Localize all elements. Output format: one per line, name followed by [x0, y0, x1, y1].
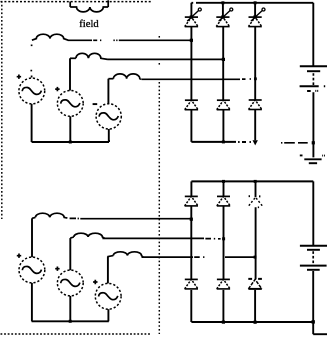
- wire phase6 to bridge: [142, 256, 256, 258]
- AC source V1: [17, 75, 45, 104]
- wire battery2 positive lead: [312, 181, 314, 245]
- node neutral lower: [69, 320, 72, 323]
- AC source V3: [93, 104, 122, 129]
- wire column1 lower: [190, 181, 192, 322]
- wire positive bus top rectifier: [191, 2, 313, 4]
- wire battery1 negative lead: [312, 92, 314, 157]
- diode D3: [249, 100, 262, 110]
- wire battery1 positive lead: [312, 3, 314, 67]
- wire phase1 top to bridge: [68, 39, 192, 41]
- wire column2 lower: [222, 181, 224, 322]
- wire negative bus fragments: [238, 141, 251, 143]
- node phase4 junction: [190, 218, 193, 221]
- wire V1 top lead (eroded dotted): [30, 45, 32, 78]
- SCR Q1: [185, 8, 202, 27]
- wire column3 lower: [254, 181, 257, 322]
- wire column3 top: [254, 3, 256, 140]
- AC source V6: [93, 280, 121, 309]
- diode D6 (eroded): [249, 196, 263, 207]
- wire coil L2 corner: [70, 57, 76, 59]
- wire V4 top lead: [31, 218, 33, 257]
- node phase5 junction: [222, 237, 225, 240]
- wire coil L4 corner: [32, 216, 35, 219]
- node phase6 junction: [254, 256, 257, 259]
- battery BT1: [300, 66, 327, 91]
- wire V2 top lead: [69, 58, 71, 90]
- diode D9 (partially eroded bar): [248, 279, 262, 289]
- node phase2 junction: [222, 58, 225, 61]
- inductor L1: [32, 34, 68, 40]
- wire V5 bottom lead: [69, 296, 71, 321]
- wire negative bus lower rectifier: [191, 321, 313, 323]
- ground: [300, 155, 325, 163]
- inductor field: [70, 7, 108, 12]
- wire battery2 negative lead: [312, 271, 314, 334]
- inductor L5: [74, 233, 105, 238]
- AC source V2: [55, 87, 83, 116]
- node battery2 negative bus: [312, 320, 315, 323]
- wire neutral bus lower alternator: [32, 320, 109, 322]
- wire column2 top: [222, 3, 225, 142]
- diode D8: [217, 279, 230, 289]
- node D8 bus: [222, 321, 225, 324]
- node neutral top: [69, 141, 72, 144]
- inductor L2: [76, 53, 108, 59]
- inductor L3: [113, 74, 141, 79]
- diode D7: [185, 279, 198, 289]
- wire V6 top lead: [107, 257, 109, 284]
- wire column1 top: [190, 3, 192, 142]
- SCR Q2: [216, 8, 233, 27]
- SCR Q3: [248, 8, 265, 27]
- diode D1: [185, 100, 198, 110]
- wire V1 bottom lead: [31, 104, 33, 142]
- wire coil L5 corner: [70, 237, 74, 238]
- wire continuation bottom right: [313, 333, 327, 335]
- wire negative bus to ground (dashed): [281, 142, 308, 144]
- inductor L6: [113, 252, 143, 257]
- svg-text:field: field: [79, 19, 99, 30]
- node phase1 junction: [190, 39, 193, 42]
- wire V4 bottom lead: [31, 283, 33, 321]
- wire V2 bottom lead: [69, 116, 71, 142]
- wire V6 bottom lead: [107, 309, 109, 321]
- node SCR3 anode bus: [254, 1, 257, 4]
- node D4 bus: [222, 180, 225, 183]
- wire phase3 top to bridge: [142, 78, 251, 80]
- wire V3 bottom lead: [108, 129, 110, 141]
- diode D2: [217, 100, 230, 110]
- wire coil L3 corner: [108, 78, 113, 80]
- wire coil L6 corner: [107, 256, 113, 257]
- field winding terminal stubs: [70, 0, 108, 7]
- wire phase5 to bridge: [102, 237, 220, 239]
- arrow negative lead column3: [253, 140, 258, 145]
- wire phase2 top to bridge: [108, 58, 224, 60]
- wire negative bus top rectifier: [191, 141, 236, 143]
- wire V3 top lead: [107, 79, 109, 104]
- wire neutral bus top alternator: [32, 140, 109, 142]
- node D9 bus: [254, 321, 257, 324]
- AC source V4: [17, 254, 45, 283]
- node phase3 junction: [254, 77, 257, 80]
- node ground junction: [312, 141, 315, 144]
- diode D4: [185, 196, 198, 206]
- wire phase4 to bridge: [70, 217, 192, 219]
- battery BT2: [300, 246, 327, 270]
- wire positive bus lower rectifier: [191, 180, 313, 182]
- AC source V5: [55, 267, 83, 296]
- node SCR2 anode bus: [221, 1, 224, 4]
- node D6 bus: [254, 180, 257, 183]
- wire V5 top lead: [69, 238, 71, 270]
- diode D5: [217, 196, 230, 206]
- inductor L4: [35, 213, 67, 218]
- node D2 cathode bus: [222, 140, 225, 143]
